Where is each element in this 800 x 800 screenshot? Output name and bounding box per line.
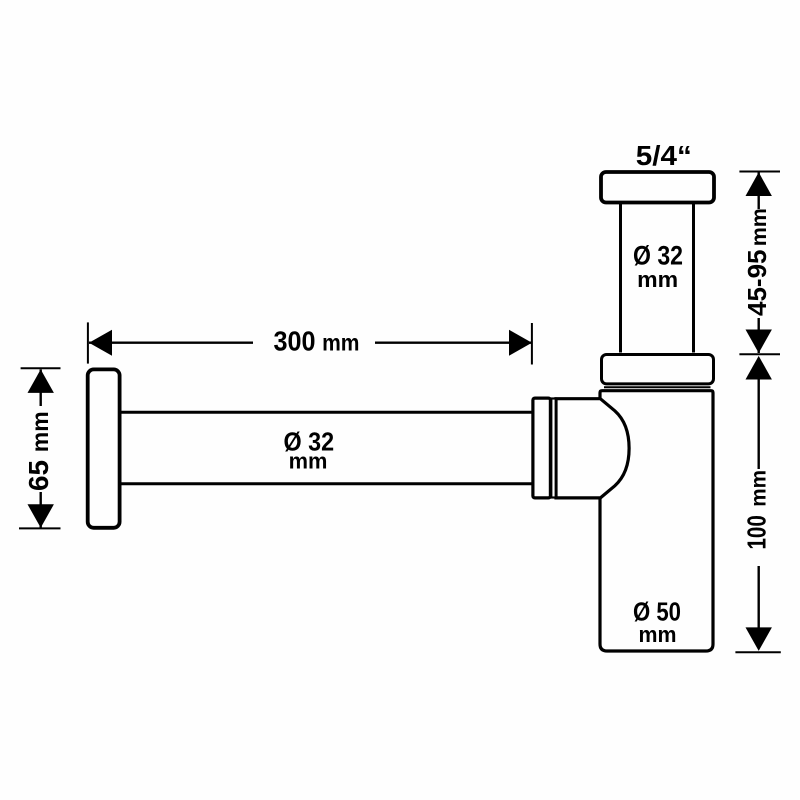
ring seal band bbox=[551, 399, 555, 498]
label 45-95 mm rotated bbox=[742, 208, 772, 316]
dimension 65 mm line lower segment bbox=[40, 492, 42, 528]
dimension 65 mm line upper segment bbox=[40, 369, 42, 406]
label 100 mm rotated bbox=[742, 470, 772, 550]
dimension 45-95 mm up arrow bbox=[746, 172, 772, 196]
label 300 mm bbox=[274, 326, 360, 357]
dimension 45-95 mm line upper segment bbox=[758, 173, 760, 210]
dimension 300 mm line left segment bbox=[89, 342, 253, 344]
dimension 65 mm down arrow bbox=[28, 504, 54, 528]
svg-text:mm: mm bbox=[747, 470, 771, 507]
vertical tailpipe left edge bbox=[619, 203, 622, 353]
dimension 45-95 mm top extension line bbox=[739, 171, 780, 173]
svg-text:65: 65 bbox=[23, 460, 54, 491]
svg-text:5/4“: 5/4“ bbox=[636, 140, 692, 171]
dimension 300 mm left arrow bbox=[89, 330, 112, 356]
dimension 300 mm right arrow bbox=[509, 330, 532, 356]
svg-text:300: 300 bbox=[274, 326, 316, 357]
svg-text:mm: mm bbox=[27, 411, 53, 452]
dimension 45-95 mm line lower segment bbox=[758, 318, 760, 353]
dimension 300 mm extension line left bbox=[87, 322, 89, 363]
svg-text:100: 100 bbox=[742, 515, 772, 549]
trap body Ø50 cylinder bbox=[600, 391, 713, 651]
svg-text:mm: mm bbox=[639, 622, 677, 647]
body top nut bbox=[602, 355, 714, 384]
label Ø32 mm on vertical pipe bbox=[633, 240, 683, 292]
dimension 300 mm line right segment bbox=[375, 342, 531, 344]
dimension 100 mm up arrow bbox=[746, 356, 772, 380]
compression nut at pipe end bbox=[533, 398, 551, 498]
svg-text:45-95: 45-95 bbox=[742, 250, 772, 317]
dimension 300 mm extension line right bbox=[531, 323, 533, 365]
svg-text:mm: mm bbox=[747, 208, 771, 246]
washer line under nut bbox=[604, 386, 711, 388]
top flange nut 5/4 inch bbox=[601, 172, 714, 203]
dimension 100 mm bottom extension line bbox=[735, 651, 780, 653]
dimension 100 mm line upper segment bbox=[758, 377, 760, 469]
svg-text:mm: mm bbox=[637, 267, 678, 292]
svg-text:Ø 32: Ø 32 bbox=[633, 240, 683, 270]
wall flange bbox=[88, 369, 120, 527]
label 65 mm rotated bbox=[23, 411, 54, 491]
dimension 65 mm bottom extension line bbox=[19, 527, 61, 529]
inlet elbow dome bbox=[556, 399, 629, 498]
svg-text:mm: mm bbox=[322, 330, 359, 356]
dimension 65 mm up arrow bbox=[28, 369, 54, 393]
label Ø50 mm on body bbox=[633, 597, 681, 648]
svg-text:mm: mm bbox=[289, 449, 328, 474]
dimension 100 mm line lower segment bbox=[758, 566, 760, 628]
label Ø32 mm on horizontal pipe bbox=[284, 426, 335, 473]
horizontal inlet pipe Ø32 top edge bbox=[120, 411, 534, 414]
vertical tailpipe right edge bbox=[692, 203, 695, 353]
horizontal inlet pipe Ø32 bottom edge bbox=[120, 482, 534, 485]
dimension 65 mm top extension line bbox=[21, 367, 61, 369]
dimension 100 mm down arrow bbox=[746, 627, 772, 651]
label 5/4 inch bbox=[636, 140, 692, 171]
dimension 45-95 mm down arrow bbox=[746, 330, 772, 354]
dimension 45-95 mm / 100 mm shared extension line bbox=[739, 353, 780, 355]
